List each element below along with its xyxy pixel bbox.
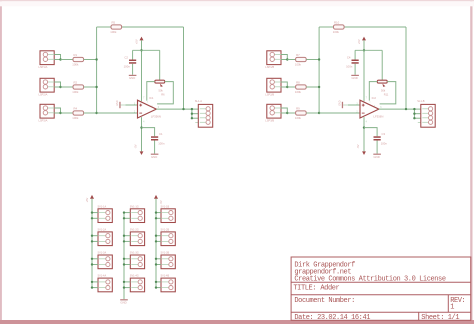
wire -5V rail <box>155 199 157 288</box>
wire connector pins tie <box>54 108 60 113</box>
connector SV1-3A <box>98 252 113 269</box>
ground at + input <box>339 100 361 108</box>
wire VCC branch <box>355 49 382 51</box>
junction header pin2 <box>191 113 193 115</box>
resistor R5 100k <box>110 20 121 34</box>
wire resistor to bus <box>306 59 319 61</box>
wire V- branch <box>142 128 155 137</box>
svg-text:100k: 100k <box>72 90 79 94</box>
supply -5V <box>356 144 366 155</box>
svg-text:100n: 100n <box>346 65 353 69</box>
ground at + input <box>116 100 138 108</box>
svg-text:C2: C2 <box>124 55 128 59</box>
wire balance loop left <box>369 82 377 101</box>
wire resistor to bus <box>84 59 97 61</box>
svg-text:SV1-2B: SV1-2B <box>161 229 170 232</box>
svg-text:R2: R2 <box>74 80 78 84</box>
svg-text:SV1-1A: SV1-1A <box>98 205 107 208</box>
op-amp IC2 LF356N <box>360 96 383 119</box>
junction <box>286 58 288 60</box>
svg-text:100k: 100k <box>110 30 117 34</box>
wire feedback vertical <box>183 27 185 109</box>
svg-text:R5: R5 <box>112 20 116 24</box>
svg-text:R4: R4 <box>74 106 78 110</box>
ground under C2 <box>129 75 137 80</box>
supply +5V <box>357 37 366 45</box>
title text author <box>294 262 355 270</box>
junction <box>286 112 288 114</box>
junction <box>59 86 61 88</box>
svg-text:LSP2/A: LSP2/A <box>39 92 48 96</box>
wire connector pins tie <box>281 108 287 113</box>
wire V- vertical <box>363 117 365 151</box>
connector SV1-3B <box>161 252 176 269</box>
svg-text:100k: 100k <box>333 30 340 34</box>
junction on bus <box>95 58 97 60</box>
connector SV1-4B <box>161 275 176 292</box>
svg-text:LSP1/A: LSP1/A <box>39 65 48 69</box>
title text sheet <box>421 314 459 322</box>
svg-text:C3: C3 <box>382 132 386 136</box>
wire to op-amp inverting input <box>319 112 360 114</box>
trimmer R11 50k <box>377 50 389 96</box>
title text date <box>294 314 370 322</box>
svg-text:LF356N: LF356N <box>373 115 383 119</box>
capacitor C2 100n <box>124 50 137 75</box>
capacitor C1 100n <box>151 132 165 154</box>
junction header pin3 <box>191 117 193 119</box>
wire V- branch <box>364 128 377 137</box>
wire grid pins <box>155 281 161 289</box>
wire output header ties <box>414 109 420 118</box>
supply +5V rail (grid) <box>85 195 94 203</box>
junction header pin3 <box>413 117 415 119</box>
svg-text:SV1-2A: SV1-2A <box>98 229 107 232</box>
junction on bus <box>95 86 97 88</box>
svg-text:R7: R7 <box>296 53 300 57</box>
resistor R1 100k <box>72 53 83 67</box>
svg-text:LSP1/B: LSP1/B <box>265 65 274 69</box>
wire grid pins <box>123 281 131 289</box>
wire output <box>156 108 192 110</box>
svg-text:GND: GND <box>151 155 157 159</box>
wire grid pins <box>155 211 161 219</box>
title text TITLE <box>293 284 339 292</box>
svg-text:R8: R8 <box>296 80 300 84</box>
connector LSP1/A <box>39 51 55 69</box>
svg-text:SV1-3B: SV1-3B <box>161 252 170 255</box>
svg-text:GND: GND <box>129 76 135 80</box>
svg-text:+5V: +5V <box>357 39 361 44</box>
supply -5V rail (grid) <box>154 195 163 205</box>
svg-text:GND: GND <box>352 76 358 80</box>
ground grid rail <box>120 299 128 304</box>
pin numbers <box>134 98 160 124</box>
trimmer R6 50k <box>155 50 165 96</box>
junction output/feedback <box>405 108 407 110</box>
svg-text:100k: 100k <box>295 116 302 120</box>
wire grid pins <box>91 235 98 243</box>
connector SL1-A <box>195 99 213 127</box>
svg-text:SL1-A: SL1-A <box>195 99 202 103</box>
title text website <box>294 268 351 276</box>
connector LSP1/B <box>265 51 281 69</box>
junction output/feedback <box>182 108 184 110</box>
svg-text:100n: 100n <box>124 65 131 69</box>
pin stub 4 <box>195 122 198 124</box>
wire connector pins tie <box>281 55 287 60</box>
wire to resistor <box>287 59 295 61</box>
svg-text:LSP3/A: LSP3/A <box>39 118 48 122</box>
svg-text:100k: 100k <box>295 90 302 94</box>
wire grid pins <box>123 258 131 266</box>
wire resistor to bus <box>306 112 319 114</box>
wire balance loop right <box>380 82 396 104</box>
wire grid pins <box>123 211 131 219</box>
wire grid pins <box>91 211 98 219</box>
svg-text:C1: C1 <box>159 132 163 136</box>
svg-text:LF356N: LF356N <box>151 115 161 119</box>
title block frame <box>291 257 471 320</box>
connector SV1-2G <box>130 229 145 246</box>
resistor R4 100k <box>72 106 83 120</box>
wire grid pins <box>91 281 98 289</box>
capacitor C4 100n <box>346 50 359 75</box>
wire to resistor <box>61 112 74 114</box>
svg-text:IC2: IC2 <box>372 96 377 100</box>
junction <box>59 112 61 114</box>
svg-text:100n: 100n <box>158 141 165 145</box>
connector SV1-1B <box>161 205 176 222</box>
wire resistor to bus <box>84 112 97 114</box>
wire resistor to bus <box>306 86 319 88</box>
svg-text:Document Number:: Document Number: <box>294 297 355 305</box>
svg-text:LSP2/B: LSP2/B <box>265 92 274 96</box>
connector SV1-2B <box>161 229 176 246</box>
supply +5V <box>134 37 143 45</box>
connector SV1-1G <box>130 205 145 222</box>
wire output header ties <box>192 109 198 118</box>
svg-text:SV1-1B: SV1-1B <box>161 205 170 208</box>
svg-text:SV1-4G: SV1-4G <box>130 275 139 278</box>
svg-text:C4: C4 <box>347 55 351 59</box>
svg-text:GND: GND <box>120 301 126 305</box>
connector SL1-B <box>417 99 435 127</box>
svg-text:-5V: -5V <box>356 144 360 148</box>
svg-text:50k: 50k <box>159 89 164 93</box>
junction V- <box>140 126 142 128</box>
wire resistor to bus <box>84 86 97 88</box>
wire VCC branch <box>133 49 160 51</box>
svg-text:-5V: -5V <box>133 144 137 148</box>
junction <box>286 86 288 88</box>
wire connector pins tie <box>281 82 287 87</box>
wire to resistor <box>61 86 74 88</box>
svg-text:Date: 23.02.14 16:41: Date: 23.02.14 16:41 <box>294 314 370 322</box>
ground under C1 <box>151 154 159 159</box>
svg-text:GND: GND <box>116 100 119 106</box>
svg-text:+5V: +5V <box>85 197 89 202</box>
ground under C3 <box>373 154 381 159</box>
title text license <box>294 275 445 283</box>
svg-text:100n: 100n <box>381 141 388 145</box>
junction VCC <box>363 49 365 51</box>
junction header pin2 <box>413 113 415 115</box>
junction on bus <box>318 86 320 88</box>
wire balance loop right <box>157 82 173 104</box>
wire VCC vertical <box>141 40 143 101</box>
svg-text:R10: R10 <box>334 20 340 24</box>
junction on bus <box>318 58 320 60</box>
wire balance loop left <box>147 82 155 101</box>
wire input bus vertical <box>96 27 98 113</box>
wire feedback vertical <box>405 27 407 109</box>
pin stub 4 <box>418 122 421 124</box>
connector SV1-4G <box>130 275 145 292</box>
capacitor C3 100n <box>374 132 388 154</box>
svg-text:GND: GND <box>339 100 342 106</box>
wire connector pins tie <box>54 82 60 87</box>
wire to resistor <box>61 59 74 61</box>
wire to resistor <box>287 112 295 114</box>
wire VCC vertical <box>363 40 365 101</box>
svg-text:100k: 100k <box>295 63 302 67</box>
wire connector pins tie <box>54 55 60 60</box>
wire GND rail <box>123 213 125 300</box>
svg-text:100k: 100k <box>72 63 79 67</box>
ground under C4 <box>351 75 359 80</box>
svg-text:50k: 50k <box>381 89 386 93</box>
connector LSP2/B <box>265 78 281 96</box>
wire output <box>379 108 415 110</box>
resistor R8 100k <box>295 80 306 94</box>
svg-text:Creative Commons Attribution 3: Creative Commons Attribution 3.0 License <box>294 275 445 283</box>
svg-text:GND: GND <box>374 155 380 159</box>
svg-text:SV1-3G: SV1-3G <box>130 252 139 255</box>
svg-text:IC1: IC1 <box>149 96 154 100</box>
junction <box>59 58 61 60</box>
svg-text:R6: R6 <box>161 93 165 97</box>
junction VCC <box>140 49 142 51</box>
resistor R10 100k <box>333 20 344 34</box>
svg-text:100k: 100k <box>72 116 79 120</box>
pin numbers <box>356 98 382 124</box>
resistor R9 100k <box>295 106 306 120</box>
connector LSP3/B <box>265 104 281 122</box>
connector LSP2/A <box>39 78 55 96</box>
svg-text:+5V: +5V <box>134 39 138 44</box>
wire feedback top (left block) <box>97 26 184 28</box>
wire grid pins <box>123 235 131 243</box>
connector LSP3/A <box>39 104 55 122</box>
wire grid pins <box>155 258 161 266</box>
wire V- vertical <box>141 117 143 151</box>
wire input bus vertical <box>318 27 320 113</box>
title text REV <box>450 297 465 311</box>
wire grid pins <box>155 235 161 243</box>
junction header pin1 <box>413 108 415 110</box>
op-amp IC1 LF356N <box>138 96 161 119</box>
svg-text:R9: R9 <box>296 106 300 110</box>
svg-text:SV1-4A: SV1-4A <box>98 275 107 278</box>
svg-text:Sheet: 1/1: Sheet: 1/1 <box>421 314 459 322</box>
wire to op-amp inverting input <box>97 112 138 114</box>
svg-text:SV1-2G: SV1-2G <box>130 229 139 232</box>
svg-text:SV1-4B: SV1-4B <box>161 275 170 278</box>
svg-text:SL1-B: SL1-B <box>417 99 424 103</box>
svg-text:R1: R1 <box>74 53 78 57</box>
svg-text:R11: R11 <box>384 93 389 97</box>
resistor R7 100k <box>295 53 306 67</box>
svg-text:1: 1 <box>450 303 454 311</box>
connector SV1-4A <box>98 275 113 292</box>
svg-text:SV1-3A: SV1-3A <box>98 252 107 255</box>
connector SV1-1A <box>98 205 113 222</box>
svg-text:LSP3/B: LSP3/B <box>265 118 274 122</box>
wire feedback top (right block) <box>319 26 406 28</box>
svg-text:TITLE:: TITLE: <box>293 284 316 292</box>
connector SV1-2A <box>98 229 113 246</box>
svg-text:Adder: Adder <box>320 284 339 292</box>
junction V- <box>363 126 365 128</box>
wire +5V rail <box>91 199 93 288</box>
svg-text:SV1-1G: SV1-1G <box>130 205 139 208</box>
title text document number <box>294 297 355 305</box>
connector SV1-3G <box>130 252 145 269</box>
junction on bus <box>95 112 97 114</box>
junction header pin1 <box>191 108 193 110</box>
supply -5V <box>133 144 143 155</box>
junction on bus <box>318 112 320 114</box>
wire to resistor <box>287 86 295 88</box>
wire grid pins <box>91 258 98 266</box>
resistor R2 100k <box>72 80 83 94</box>
svg-text:-5V: -5V <box>159 200 163 204</box>
